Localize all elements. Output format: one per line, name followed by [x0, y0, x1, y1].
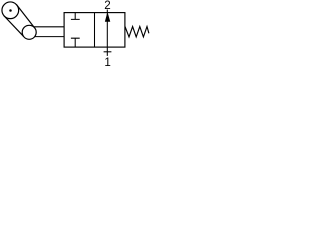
lever upper tangent line	[16, 5, 34, 28]
pivot circle	[22, 25, 36, 39]
port 1 connection crossbar	[104, 51, 112, 53]
svg-text:1: 1	[104, 56, 110, 68]
flow arrowhead	[105, 13, 110, 21]
plunger bottom line	[33, 36, 64, 38]
plunger top line	[33, 26, 64, 28]
blocked port T bottom (left square)	[71, 38, 80, 47]
valve body outline	[64, 13, 125, 48]
spring	[125, 27, 149, 37]
valve center divider	[94, 13, 96, 48]
svg-text:2: 2	[104, 0, 110, 12]
port 1 stub	[106, 47, 108, 56]
flow path line (right square)	[106, 13, 108, 47]
lever lower tangent line	[4, 16, 24, 37]
roller center dot	[9, 9, 12, 12]
blocked port T top (left square)	[71, 13, 80, 20]
roller circle	[2, 2, 19, 19]
port 2 stub	[106, 10, 108, 13]
